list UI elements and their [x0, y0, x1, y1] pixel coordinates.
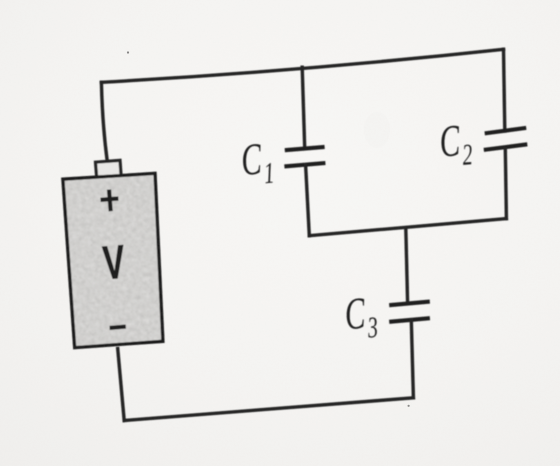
battery - symbol — [110, 327, 126, 328]
battery V terminal tab — [96, 160, 122, 177]
wire: top rail from battery branch to C2 branch — [101, 49, 503, 82]
wire: battery - terminal down to bottom rail — [118, 349, 125, 421]
wire: bottom rail from battery branch to C3 branch — [124, 398, 413, 421]
wire: left vertical from top rail down to battery + terminal — [101, 82, 107, 161]
capacitor C1 top plate — [285, 147, 325, 150]
capacitor C2 bottom plate — [484, 144, 528, 150]
capacitor C2 top plate — [485, 128, 527, 133]
dust speck near wire corner — [127, 51, 129, 53]
capacitor C3 bottom plate — [389, 318, 430, 322]
wire: middle rail from C1 branch to C2 branch — [309, 219, 506, 236]
wire: C1 branch upper (top rail to C1 top plate) — [302, 67, 305, 148]
capacitor C3 top plate — [389, 302, 430, 306]
wire: C2 branch upper (top-right corner to C2 top plate) — [504, 49, 505, 131]
wire: C3 branch upper (middle rail to C3 top plate) — [406, 228, 408, 303]
wire: C2 branch lower (C2 bottom plate to middle rail) — [505, 149, 506, 219]
wire: C1 branch lower (C1 bottom plate to middle rail) — [306, 165, 310, 236]
battery + symbol — [101, 190, 119, 212]
dust speck below bottom rail — [408, 405, 410, 407]
capacitor C1 bottom plate — [284, 163, 325, 166]
battery V body — [63, 173, 163, 347]
wire: C3 branch lower (C3 bottom plate to bottom rail) — [411, 320, 413, 398]
faint photo smudge — [364, 112, 390, 148]
